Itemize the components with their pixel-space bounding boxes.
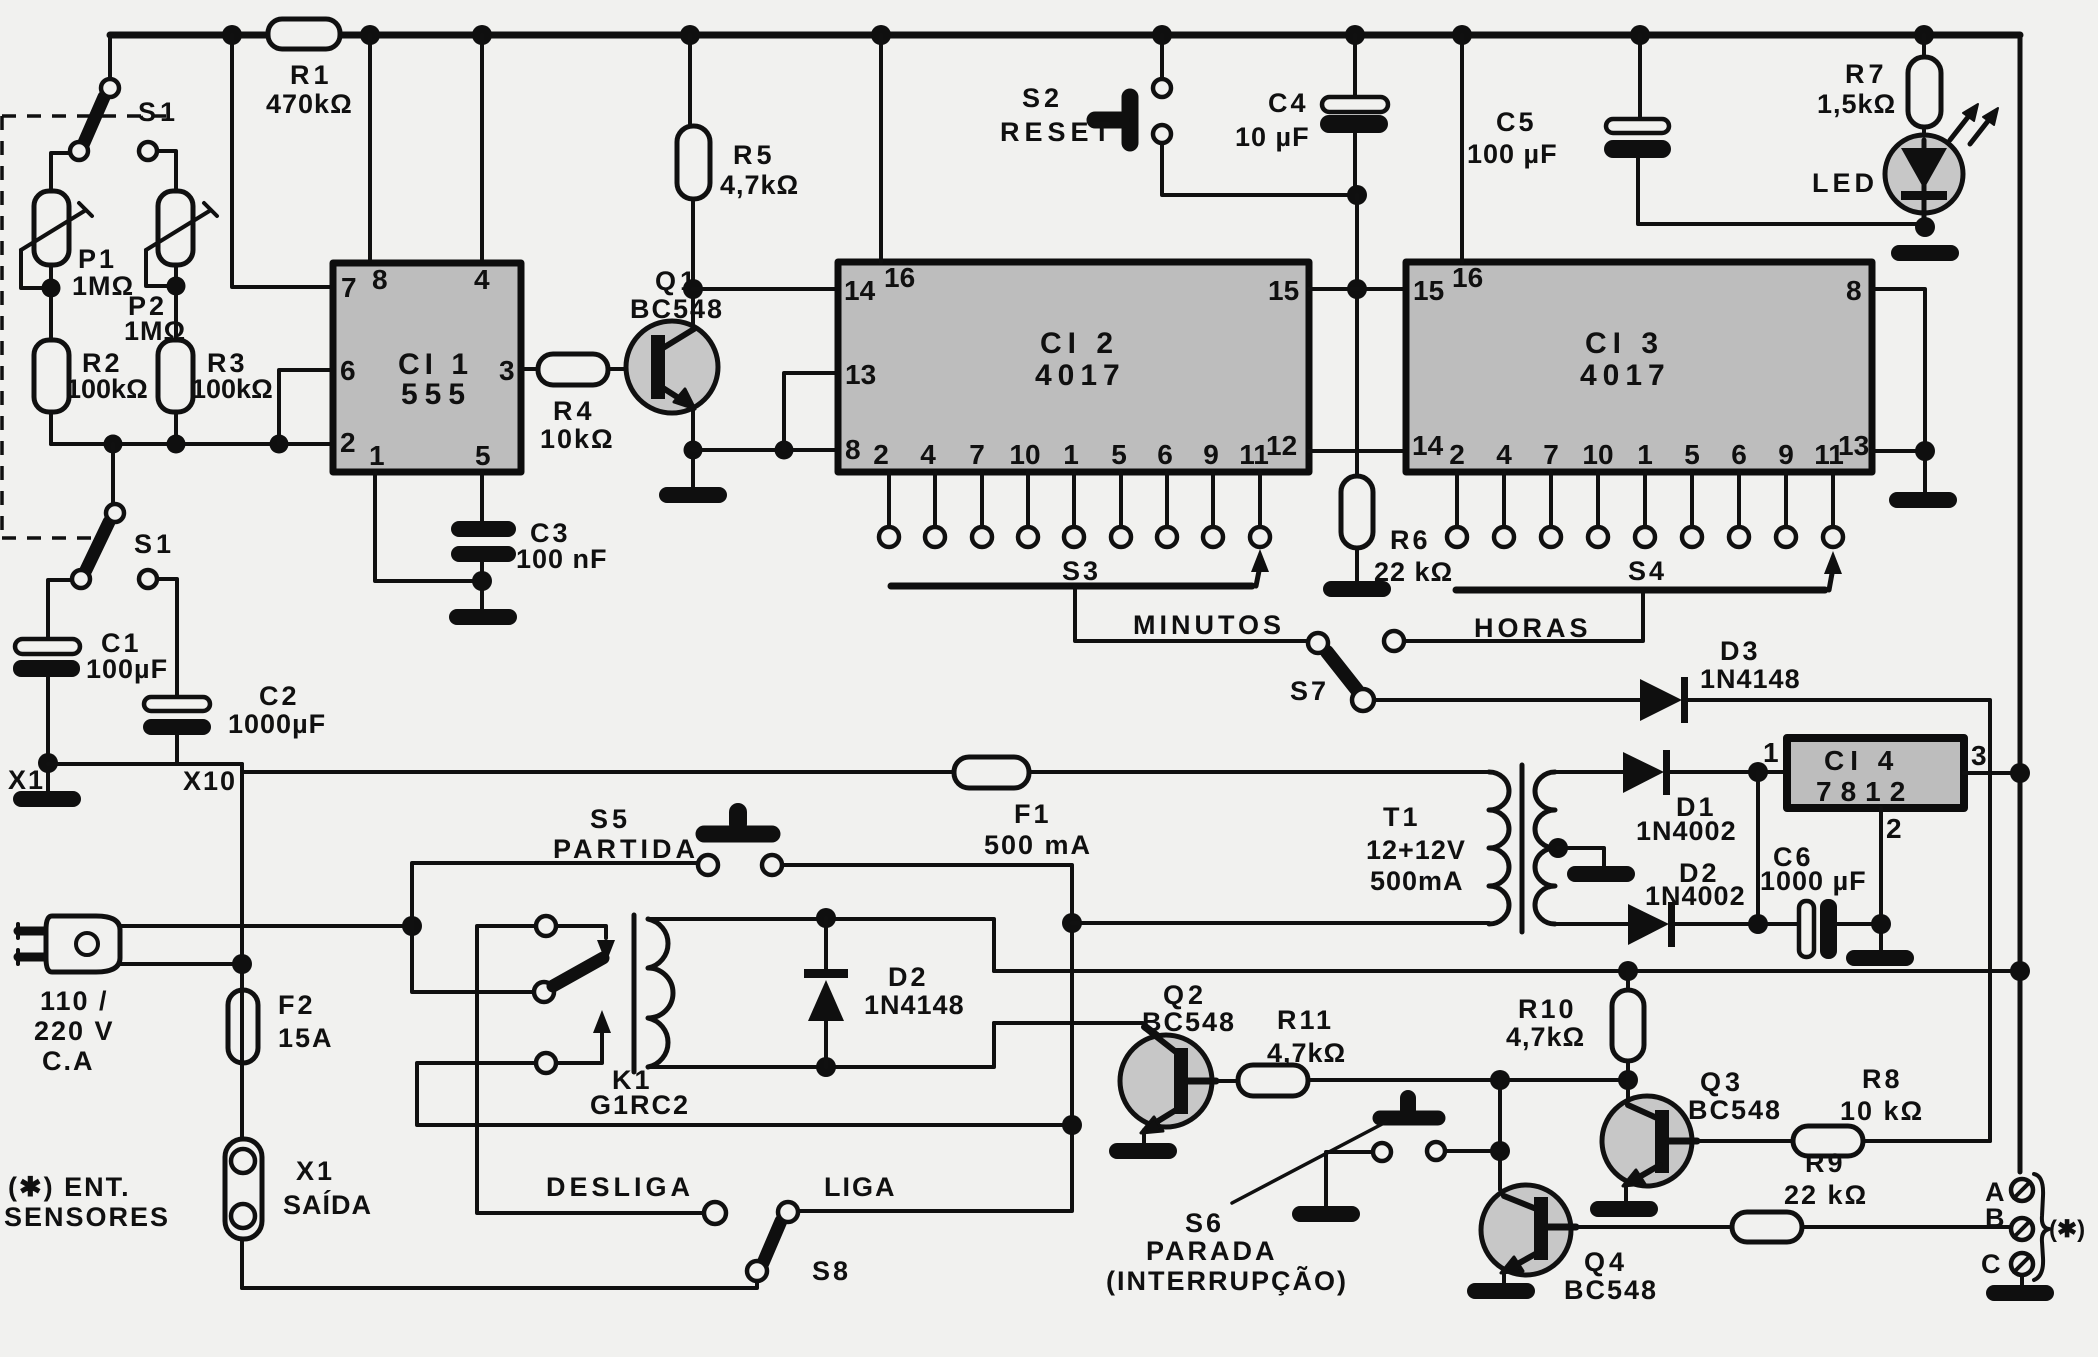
terminal B — [1985, 1203, 2033, 1240]
svg-text:9: 9 — [1203, 439, 1219, 470]
node: pin13 branch — [775, 441, 794, 460]
svg-text:CI 3: CI 3 — [1585, 327, 1664, 360]
svg-text:BC548: BC548 — [1564, 1275, 1658, 1305]
resistor R5 4.7k — [677, 35, 799, 289]
ground below S6 — [1292, 1206, 1360, 1222]
svg-text:C2: C2 — [259, 681, 300, 711]
node: S5/relay branch on AC line — [402, 916, 422, 936]
terminal C — [1981, 1249, 2033, 1279]
wire: S1 left contact to P1 — [51, 153, 70, 191]
svg-text:8: 8 — [372, 264, 388, 295]
pushbutton S6 PARADA — [1106, 1098, 1500, 1296]
svg-text:8: 8 — [845, 434, 861, 465]
svg-text:X1: X1 — [8, 765, 45, 795]
svg-text:(✱) ENT.: (✱) ENT. — [8, 1172, 131, 1202]
ground below X1 — [13, 791, 81, 807]
svg-text:P1: P1 — [78, 244, 117, 274]
wire: S4 to S7 (HORAS) — [1404, 590, 1643, 643]
node: pin8/pin13 junction — [1915, 441, 1935, 461]
svg-text:7: 7 — [341, 272, 357, 303]
svg-text:1,5kΩ: 1,5kΩ — [1817, 89, 1896, 119]
resistor R9 22k — [1576, 1148, 2012, 1242]
CI3 output pin stubs and terminals — [1457, 472, 1833, 526]
wire: Q3 emitter to ground — [1624, 1183, 1628, 1201]
potentiometer P2 1M — [124, 191, 217, 346]
svg-text:110 /: 110 / — [40, 986, 109, 1016]
resistor R6 22k — [1341, 476, 1453, 587]
ground below Q2 — [1109, 1143, 1177, 1159]
svg-text:8: 8 — [1846, 275, 1862, 306]
svg-text:D2: D2 — [888, 962, 929, 992]
svg-text:3: 3 — [1971, 740, 1987, 771]
wire: branch down to Q4 — [1500, 1080, 1536, 1204]
svg-text:CI 4: CI 4 — [1824, 745, 1899, 776]
transformer T1 secondary winding — [1366, 772, 1555, 924]
resistor R1 470k — [266, 19, 353, 119]
ground below R6 — [1323, 581, 1391, 597]
node: junction to T1 primary — [1062, 913, 1082, 933]
svg-text:MINUTOS: MINUTOS — [1133, 610, 1285, 640]
node: rail at CI3 pin16 — [1452, 25, 1472, 45]
node: Q1 collector / R5 / CI2 pin14 — [683, 279, 703, 299]
svg-text:1N4148: 1N4148 — [1700, 664, 1801, 694]
svg-text:7812: 7812 — [1816, 776, 1914, 807]
node: S6/Q4 branch — [1490, 1070, 1510, 1090]
svg-text:C5: C5 — [1496, 107, 1537, 137]
ground below Q3 — [1590, 1201, 1658, 1217]
svg-text:10kΩ: 10kΩ — [540, 424, 615, 454]
contact DESLIGA — [546, 1172, 726, 1224]
svg-text:10 kΩ: 10 kΩ — [1840, 1096, 1924, 1126]
svg-text:X1: X1 — [296, 1156, 335, 1186]
switch S1 (upper) — [70, 79, 179, 160]
svg-text:R7: R7 — [1845, 59, 1888, 89]
wire: right vertical rail — [2018, 35, 2023, 1172]
wire: sensor bottom bus to pin 2 — [51, 435, 333, 454]
wire: branch up to S5 left — [412, 863, 698, 926]
svg-text:4: 4 — [1496, 439, 1512, 470]
resistor R8 10k — [1697, 1064, 1990, 1156]
svg-text:Q2: Q2 — [1163, 980, 1207, 1010]
node: rail at C4 — [1345, 25, 1365, 45]
node: pin15 net — [1347, 279, 1367, 299]
ground below terminal C — [1986, 1285, 2054, 1301]
svg-text:S7: S7 — [1290, 676, 1329, 706]
node: S6 contact junction — [1490, 1141, 1510, 1161]
wire: plug line to relay common — [120, 924, 412, 928]
svg-text:10: 10 — [1009, 439, 1040, 470]
CI2 output pin stubs and terminals — [889, 472, 1260, 526]
svg-text:BC548: BC548 — [1688, 1095, 1782, 1125]
node: CI4 pin 1 — [1748, 762, 1768, 782]
svg-text:10 µF: 10 µF — [1235, 122, 1310, 152]
svg-text:BC548: BC548 — [1142, 1007, 1236, 1037]
wire: lower S1 left to C1 — [48, 580, 72, 639]
svg-text:12: 12 — [1266, 430, 1297, 461]
diode D2 1N4148 (relay) — [804, 908, 965, 1077]
svg-text:PARTIDA: PARTIDA — [553, 834, 699, 864]
svg-text:11: 11 — [1239, 439, 1269, 470]
node: rail at pin 4 — [472, 25, 492, 45]
svg-text:100µF: 100µF — [86, 654, 168, 684]
svg-text:C: C — [1981, 1249, 2001, 1279]
svg-text:5: 5 — [475, 440, 491, 471]
svg-text:S5: S5 — [590, 804, 631, 834]
svg-text:SAÍDA: SAÍDA — [283, 1189, 372, 1220]
node: rail right of R1 — [360, 25, 380, 45]
node: neutral/left rail — [232, 954, 252, 974]
transistor Q2 BC548 — [1120, 980, 1236, 1133]
svg-text:100 µF: 100 µF — [1467, 139, 1558, 169]
transformer T1 primary winding — [1489, 772, 1509, 924]
wire: S3 to S7 (MINUTOS) — [1075, 586, 1308, 641]
wire: NC contact to DESLIGA — [477, 926, 704, 1213]
wire: CI4 pin 2 down — [1879, 808, 1883, 950]
wire: node to CI2 pin 14 — [693, 287, 838, 291]
wire: rail to CI1 pin 4 — [480, 35, 484, 263]
wire: left AC rail — [240, 764, 244, 1288]
resistor R4 10k — [521, 354, 627, 454]
svg-text:220 V: 220 V — [34, 1016, 115, 1046]
svg-text:2: 2 — [1449, 439, 1465, 470]
dashed sensor box — [2, 116, 170, 538]
resistor R11 4.7k — [1216, 1005, 1628, 1096]
node: Q1 emitter / CI2 pin8 — [684, 441, 703, 460]
fuse F1 500mA — [242, 757, 1489, 860]
svg-text:R11: R11 — [1277, 1005, 1334, 1035]
terminal A — [1985, 1177, 2033, 1207]
svg-text:F2: F2 — [278, 990, 316, 1020]
svg-text:(INTERRUPÇÃO): (INTERRUPÇÃO) — [1106, 1265, 1348, 1296]
svg-text:1: 1 — [1763, 737, 1779, 768]
wire: CI3 pin 13 to right — [1872, 449, 1925, 453]
svg-text:1MΩ: 1MΩ — [72, 271, 134, 301]
relay contact NC (top) — [536, 916, 615, 963]
node: rail at CI2 pin16 — [871, 25, 891, 45]
switch S7 MINUTOS/HORAS — [1290, 631, 1404, 711]
relay contact COM with lever — [534, 958, 603, 1002]
wire: relay COM feed — [412, 926, 534, 992]
svg-text:15: 15 — [1413, 275, 1444, 306]
svg-text:R5: R5 — [733, 140, 776, 170]
resistor R3 100k — [158, 340, 273, 444]
node X10 — [183, 766, 237, 796]
capacitor C3 100nF — [451, 518, 608, 609]
svg-text:7: 7 — [969, 439, 985, 470]
AC plug 110/220V — [18, 916, 120, 1076]
wire: rail to CI2 pin 16 — [879, 35, 883, 262]
svg-text:(✱): (✱) — [2049, 1216, 2085, 1243]
svg-text:LIGA: LIGA — [824, 1172, 897, 1202]
svg-text:5: 5 — [1684, 439, 1700, 470]
IC CI2 4017 — [838, 262, 1309, 472]
wire: secondary top to D1 — [1555, 770, 1623, 774]
wire: CI1 pin 1 to C3 ground node — [375, 472, 482, 581]
svg-text:CI 1: CI 1 — [398, 348, 473, 381]
connector X1 SAIDA — [225, 1139, 372, 1239]
capacitor C1 100uF — [13, 628, 168, 791]
svg-text:Q4: Q4 — [1584, 1247, 1628, 1277]
wire: rail to S1 — [108, 35, 112, 80]
svg-text:B: B — [1985, 1203, 2005, 1233]
diode D1 1N4002 — [1623, 750, 1787, 846]
svg-text:F1: F1 — [1014, 799, 1052, 829]
wire: bus down to lower S1 — [111, 444, 115, 504]
svg-text:1000 µF: 1000 µF — [1760, 866, 1867, 896]
ground below pin 13 node — [1889, 492, 1957, 508]
wire: junction down to R6 (through pin15 row) — [1355, 195, 1359, 476]
op-amp U1: IC CI1 555 — [333, 263, 521, 472]
node: rail at R7 — [1914, 25, 1934, 45]
node: C6 left junction — [1748, 914, 1768, 934]
svg-text:12+12V: 12+12V — [1366, 835, 1466, 865]
svg-text:4,7kΩ: 4,7kΩ — [720, 170, 799, 200]
wire: NO contact bus — [417, 1063, 1072, 1125]
svg-text:4,7kΩ: 4,7kΩ — [1506, 1022, 1585, 1052]
svg-text:4: 4 — [920, 439, 936, 470]
svg-text:7: 7 — [1543, 439, 1559, 470]
wire: S2 to C4 minus node — [1162, 143, 1357, 195]
svg-text:S1: S1 — [138, 97, 179, 127]
svg-text:2: 2 — [340, 427, 356, 458]
svg-text:100kΩ: 100kΩ — [66, 374, 148, 404]
selector S3 bar with arrow — [891, 549, 1269, 586]
svg-text:1: 1 — [1063, 439, 1079, 470]
resistor R2 100k — [34, 340, 148, 444]
svg-text:X10: X10 — [183, 766, 237, 796]
svg-text:100kΩ: 100kΩ — [191, 374, 273, 404]
node X1 — [8, 753, 58, 795]
svg-text:4: 4 — [474, 264, 490, 295]
svg-text:1000µF: 1000µF — [228, 709, 326, 739]
transistor Q1 BC548 — [626, 266, 724, 413]
ground below Q1 — [659, 487, 727, 503]
IC CI4 7812 regulator — [1763, 737, 1987, 844]
svg-text:5: 5 — [1111, 439, 1127, 470]
node: C4/S2 junction — [1347, 185, 1367, 205]
svg-text:15A: 15A — [278, 1023, 334, 1053]
fuse F2 15A — [228, 990, 334, 1063]
svg-text:R9: R9 — [1805, 1148, 1846, 1178]
svg-text:C4: C4 — [1268, 88, 1309, 118]
svg-text:14: 14 — [1412, 430, 1444, 461]
svg-text:10: 10 — [1582, 439, 1613, 470]
pushbutton S2 RESET — [1000, 79, 1171, 147]
svg-text:16: 16 — [1452, 262, 1483, 293]
IC CI3 4017 — [1406, 262, 1872, 472]
svg-text:Q3: Q3 — [1700, 1067, 1744, 1097]
wire: CI4 pin 3 to right rail — [1964, 771, 2020, 775]
svg-text:100 nF: 100 nF — [516, 544, 608, 574]
svg-text:1: 1 — [1637, 439, 1653, 470]
ground below Q4 — [1467, 1283, 1535, 1299]
transistor Q3 BC548 — [1602, 1067, 1782, 1186]
note: sensors input legend — [4, 1172, 170, 1232]
wire: CI3 pin 8 to right — [1872, 289, 1925, 492]
node: +12V at right rail — [2010, 763, 2030, 783]
resistor R7 1.5k — [1817, 35, 1941, 127]
node: rail at R5 — [680, 25, 700, 45]
wire: Q2 collector line — [994, 1023, 1180, 1051]
pushbutton S5 PARTIDA — [553, 804, 782, 875]
svg-text:R8: R8 — [1862, 1064, 1903, 1094]
svg-text:3: 3 — [499, 355, 515, 386]
resistor R10 4.7k — [1506, 961, 1644, 1080]
wire: S1 right contact to P2 — [157, 151, 176, 191]
svg-text:4,7kΩ: 4,7kΩ — [1267, 1038, 1346, 1068]
svg-text:4017: 4017 — [1580, 359, 1671, 392]
svg-text:22 kΩ: 22 kΩ — [1784, 1180, 1868, 1210]
wire: AC to T1 primary bottom — [1072, 921, 1489, 925]
wire: Q1 collector up to node — [691, 289, 695, 330]
wire: pin 6 branch — [279, 370, 333, 444]
wire: D3 to +12V node — [1688, 700, 1990, 1141]
svg-text:6: 6 — [1157, 439, 1173, 470]
wire: Q4 emitter to ground — [1502, 1270, 1506, 1283]
wire: bottom return rail — [242, 1281, 757, 1288]
transformer T1 core — [1520, 765, 1525, 932]
wire: branch to CI2 pin 13 — [784, 373, 838, 450]
wire: rail to CI3 pin 16 — [1460, 35, 1464, 262]
svg-text:500mA: 500mA — [1370, 866, 1464, 896]
svg-text:2: 2 — [1886, 813, 1902, 844]
svg-text:6: 6 — [1731, 439, 1747, 470]
transformer center tap to ground — [1548, 838, 1604, 866]
wire: rail to S2 — [1160, 35, 1164, 80]
diode D3 1N4148 — [1640, 636, 1801, 723]
selector S4 bar with arrow — [1456, 551, 1842, 590]
wire: emitter node to CI2 pin 8 — [693, 448, 838, 452]
svg-text:14: 14 — [844, 275, 876, 306]
capacitor C2 1000uF — [143, 681, 326, 764]
node: rail at S2 — [1152, 25, 1172, 45]
potentiometer P1 1M — [21, 191, 134, 340]
wire: CI2 pin 15 to CI3 pin 15 — [1309, 287, 1406, 291]
svg-text:D3: D3 — [1720, 636, 1761, 666]
svg-text:4017: 4017 — [1035, 359, 1126, 392]
svg-text:16: 16 — [884, 262, 915, 293]
svg-text:RESET: RESET — [1000, 117, 1115, 147]
svg-text:DESLIGA: DESLIGA — [546, 1172, 694, 1202]
relay K1 coil — [590, 915, 690, 1120]
capacitor C6 1000uF — [1760, 842, 1881, 959]
svg-text:R1: R1 — [290, 60, 333, 90]
switch S8 LIGA — [747, 1172, 897, 1286]
svg-text:500 mA: 500 mA — [984, 830, 1092, 860]
svg-text:11: 11 — [1814, 439, 1844, 470]
wire: X1-X10 bus — [48, 762, 242, 766]
svg-text:S1: S1 — [134, 529, 175, 559]
wire: plug neutral to left rail — [120, 962, 242, 966]
node: pin2/C6 junction — [1871, 914, 1891, 934]
relay contact NO (bottom) with arrow — [536, 1010, 611, 1073]
wire: coil top to corner — [648, 919, 994, 971]
node: rail at C5 — [1630, 25, 1650, 45]
svg-text:1N4002: 1N4002 — [1645, 881, 1746, 911]
svg-text:6: 6 — [340, 355, 356, 386]
svg-text:1N4002: 1N4002 — [1636, 816, 1737, 846]
svg-text:G1RC2: G1RC2 — [590, 1090, 690, 1120]
wire: CI2 pin 12 to CI3 pin 14 — [1309, 449, 1406, 453]
svg-text:9: 9 — [1778, 439, 1794, 470]
wire: +12V horizontal rail — [994, 969, 2020, 973]
svg-text:CI 2: CI 2 — [1040, 327, 1119, 360]
wire: rail to CI1 pin 7 — [232, 35, 333, 287]
svg-text:2: 2 — [873, 439, 889, 470]
wire: S7 pole to D3 — [1374, 698, 1640, 702]
wire: CI1 pin 5 to C3 — [480, 472, 484, 521]
wire: S5 right down to T1 line — [782, 865, 1072, 1211]
svg-text:15: 15 — [1268, 275, 1299, 306]
svg-text:R6: R6 — [1390, 525, 1431, 555]
svg-text:S8: S8 — [812, 1256, 851, 1286]
svg-text:LED: LED — [1812, 168, 1878, 198]
svg-text:HORAS: HORAS — [1474, 613, 1592, 643]
svg-text:C.A: C.A — [42, 1046, 95, 1076]
svg-text:T1: T1 — [1383, 802, 1421, 832]
svg-text:R4: R4 — [553, 396, 596, 426]
node: R10 bottom junction — [1618, 1070, 1638, 1090]
wire: terminal C to ground — [2020, 1275, 2024, 1285]
ground below CI4 pin 2 — [1846, 950, 1914, 966]
wire: top +V rail — [110, 32, 2020, 39]
svg-text:S6: S6 — [1185, 1208, 1224, 1238]
svg-text:PARADA: PARADA — [1146, 1236, 1278, 1266]
node: LED cathode / C5 — [1915, 217, 1935, 237]
node: pin1/C3 junction — [472, 571, 492, 591]
node: relay drive junction — [1062, 1115, 1082, 1135]
wire: lower S1 right to C2 — [157, 579, 177, 697]
svg-text:470kΩ: 470kΩ — [266, 89, 353, 119]
svg-text:13: 13 — [845, 359, 876, 390]
node: +12V rail at right — [2010, 961, 2030, 981]
wire: secondary bottom to D2 — [1555, 922, 1628, 926]
brace and (*) mark — [2034, 1174, 2085, 1280]
svg-text:555: 555 — [401, 378, 472, 411]
svg-text:S2: S2 — [1022, 83, 1063, 113]
wire: Q1 emitter down — [691, 407, 695, 487]
wire: Q2 emitter to ground — [1142, 1130, 1146, 1143]
svg-text:1: 1 — [369, 440, 385, 471]
capacitor C4 10uF — [1235, 35, 1388, 195]
wire: rail to CI1 pin 8 — [368, 35, 372, 263]
ground below C3 — [449, 609, 517, 625]
diode D2 1N4002 — [1628, 858, 1800, 947]
svg-text:SENSORES: SENSORES — [4, 1202, 170, 1232]
switch S1 (lower) — [72, 504, 175, 588]
capacitor C5 100uF — [1467, 35, 1925, 224]
svg-text:1N4148: 1N4148 — [864, 990, 965, 1020]
node: rail left of R1 — [222, 25, 242, 45]
ground below LED — [1891, 245, 1959, 261]
ground at T1 center tap — [1567, 866, 1635, 882]
wire: pin1 node down to C6 rail — [1756, 772, 1760, 924]
svg-text:S4: S4 — [1628, 556, 1667, 586]
svg-text:BC548: BC548 — [630, 294, 724, 324]
LED — [1812, 104, 1998, 227]
wire: coil bottom to bus — [648, 1023, 994, 1067]
svg-text:R10: R10 — [1518, 994, 1577, 1024]
svg-text:S3: S3 — [1062, 556, 1101, 586]
transistor Q4 BC548 — [1481, 1185, 1658, 1305]
